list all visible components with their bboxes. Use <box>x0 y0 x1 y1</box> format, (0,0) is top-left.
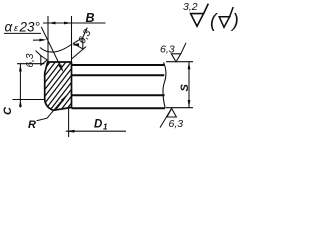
svg-text:23°: 23° <box>19 20 41 35</box>
svg-text:B: B <box>86 11 95 25</box>
S bottom extension line <box>166 107 193 109</box>
B right arrow <box>64 22 72 25</box>
roughness mark on head left face (6,3) <box>36 51 48 65</box>
svg-text:3,2: 3,2 <box>183 1 198 13</box>
parenthesized rest-surfaces mark <box>219 7 233 27</box>
svg-text:): ) <box>231 11 239 32</box>
svg-text:1: 1 <box>103 122 108 131</box>
C dimension top extension line <box>17 63 45 65</box>
roughness mark on sheet bottom surface (6,3) <box>160 108 176 127</box>
B left arrow <box>48 22 56 25</box>
B dimension: left extension line <box>47 16 49 62</box>
underline of alpha label <box>4 32 41 34</box>
R leader line <box>37 96 67 121</box>
C dimension line <box>19 64 21 108</box>
svg-text:6,3: 6,3 <box>160 44 175 56</box>
S dimension line <box>188 62 190 108</box>
sheet package bottom outer line <box>72 107 166 109</box>
D1 extension line <box>68 107 70 138</box>
face line (sheet face against head) <box>71 62 73 108</box>
svg-text:ε: ε <box>14 23 19 34</box>
B dimension: right extension line <box>71 16 73 62</box>
alpha leader arrowhead <box>58 64 63 72</box>
roughness mark on sheet face (6,3) <box>72 28 87 59</box>
svg-text:R: R <box>28 119 36 131</box>
svg-text:6,3: 6,3 <box>169 118 184 130</box>
B dimension line <box>43 22 106 24</box>
S top extension line <box>166 61 193 63</box>
C top arrow <box>19 64 22 71</box>
svg-text:(: ( <box>210 11 218 32</box>
angle arc left arrow <box>39 39 47 42</box>
hatching of head section <box>45 62 71 110</box>
S bottom arrow <box>188 100 191 107</box>
C bottom arrow <box>19 100 22 107</box>
head outline (closing head, sectioned) <box>45 62 72 110</box>
general roughness mark 3,2 (top right corner) <box>191 4 209 27</box>
svg-text:S: S <box>179 84 191 92</box>
angle arc dimension line <box>40 45 71 53</box>
C dimension bottom extension line <box>13 99 46 101</box>
R leader arrowhead <box>61 96 66 102</box>
svg-text:C: C <box>2 106 14 115</box>
sheet package top outer line <box>72 64 165 66</box>
D1 arrow <box>66 130 75 133</box>
S top arrow <box>188 62 191 69</box>
angle arc right arrow <box>72 43 79 46</box>
roughness mark on sheet top surface (6,3) <box>171 43 186 62</box>
shank upper line <box>72 74 165 76</box>
svg-text:6,3: 6,3 <box>25 53 36 67</box>
D1 dimension line <box>66 130 126 132</box>
alpha leader line <box>41 27 62 71</box>
svg-text:D: D <box>94 118 102 130</box>
svg-text:α: α <box>5 20 14 35</box>
break line at right end <box>163 62 166 108</box>
shank lower line <box>72 94 165 96</box>
